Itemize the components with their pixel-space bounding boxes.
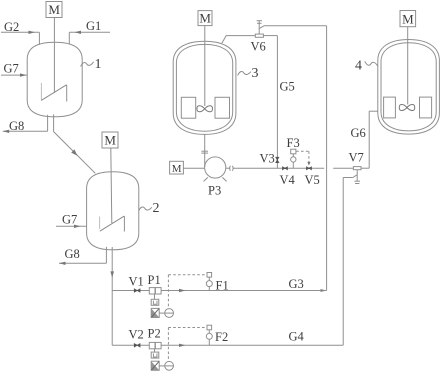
- svg-text:F2: F2: [215, 330, 228, 344]
- svg-text:P2: P2: [148, 327, 161, 341]
- svg-text:G4: G4: [289, 330, 305, 344]
- svg-text:V7: V7: [349, 151, 364, 165]
- svg-text:M: M: [104, 133, 116, 148]
- svg-text:V6: V6: [251, 40, 266, 54]
- svg-text:M: M: [402, 11, 414, 26]
- svg-text:G2: G2: [4, 20, 19, 34]
- svg-text:F3: F3: [287, 136, 300, 150]
- svg-text:G8: G8: [65, 247, 80, 261]
- svg-text:1: 1: [95, 57, 102, 72]
- svg-text:V3: V3: [260, 152, 275, 166]
- svg-text:P3: P3: [208, 184, 221, 198]
- svg-text:3: 3: [252, 66, 259, 81]
- svg-text:M: M: [172, 163, 182, 175]
- svg-text:4: 4: [355, 59, 362, 74]
- svg-text:G7: G7: [4, 62, 19, 76]
- svg-text:G5: G5: [280, 80, 295, 94]
- svg-text:G6: G6: [351, 126, 366, 140]
- svg-text:M: M: [48, 2, 60, 17]
- svg-text:V4: V4: [280, 173, 296, 187]
- svg-text:V5: V5: [305, 173, 320, 187]
- svg-text:V2: V2: [129, 328, 144, 342]
- svg-text:P1: P1: [148, 273, 161, 287]
- svg-text:F1: F1: [216, 279, 229, 293]
- svg-text:G3: G3: [289, 277, 304, 291]
- svg-text:G1: G1: [86, 19, 101, 33]
- svg-text:2: 2: [153, 201, 160, 216]
- svg-text:G8: G8: [9, 119, 24, 133]
- svg-text:V1: V1: [129, 275, 144, 289]
- svg-text:M: M: [199, 11, 211, 26]
- svg-text:G7: G7: [62, 213, 77, 227]
